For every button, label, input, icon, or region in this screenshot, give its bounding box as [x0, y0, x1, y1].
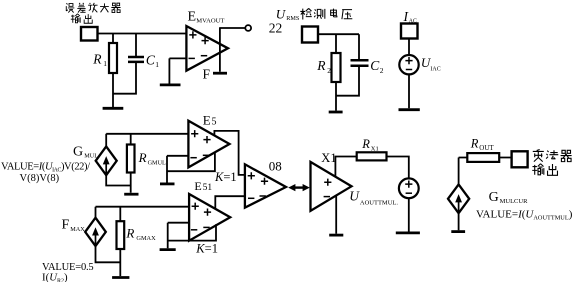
svg-text:AC: AC [409, 19, 417, 25]
svg-text:G: G [489, 190, 499, 205]
svg-text:GMAX: GMAX [136, 235, 156, 242]
svg-text:5: 5 [212, 117, 217, 128]
svg-text:08: 08 [269, 159, 282, 174]
svg-text:1: 1 [103, 59, 107, 68]
svg-text:V(8)V(8): V(8)V(8) [20, 173, 60, 184]
svg-text:E: E [203, 113, 211, 128]
svg-text:2: 2 [380, 66, 384, 75]
svg-text:MAX: MAX [70, 226, 85, 233]
svg-text:E: E [188, 10, 197, 25]
svg-text:22: 22 [269, 21, 283, 36]
svg-text:U: U [349, 188, 360, 203]
svg-text:R: R [138, 150, 147, 165]
svg-text:K=1: K=1 [214, 170, 237, 184]
svg-text:RMS: RMS [286, 15, 300, 22]
svg-text:1: 1 [155, 60, 159, 69]
svg-text:U: U [276, 6, 287, 21]
svg-text:GMUL: GMUL [148, 159, 166, 166]
svg-text:R: R [92, 51, 102, 66]
svg-text:X1: X1 [371, 146, 379, 153]
svg-text:K=1: K=1 [195, 241, 218, 255]
svg-text:G: G [73, 145, 83, 160]
svg-text:MUL: MUL [84, 153, 98, 160]
svg-text:R: R [361, 137, 370, 151]
svg-text:MVAOUT: MVAOUT [196, 17, 224, 24]
svg-text:MULCUR: MULCUR [500, 198, 528, 205]
svg-text:R: R [470, 136, 479, 150]
svg-text:VALUE=I(UIAC)V(22)/: VALUE=I(UIAC)V(22)/ [1, 161, 90, 173]
svg-text:F: F [62, 218, 70, 233]
svg-text:R: R [125, 226, 134, 241]
svg-text:IAC: IAC [430, 66, 440, 72]
svg-text:F: F [203, 66, 211, 81]
svg-text:E: E [194, 179, 201, 193]
svg-text:51: 51 [203, 183, 213, 193]
svg-text:2: 2 [327, 66, 331, 75]
svg-text:R: R [316, 58, 326, 73]
svg-text:AOUTTMUL.: AOUTTMUL. [360, 199, 398, 206]
svg-text:I(UR2): I(UR2) [42, 272, 68, 282]
svg-text:X1: X1 [321, 151, 336, 165]
svg-text:OUT: OUT [479, 144, 494, 152]
